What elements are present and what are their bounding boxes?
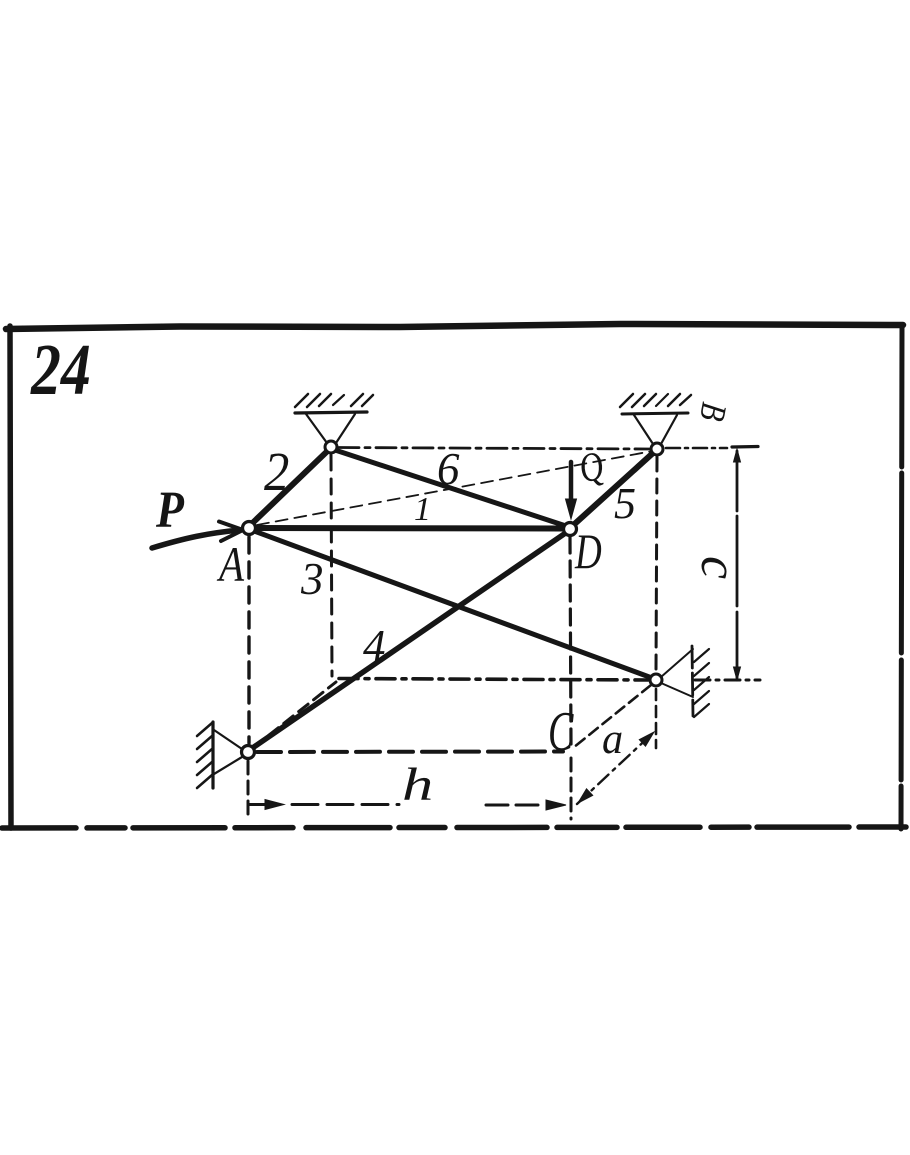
node A [243, 522, 256, 535]
frame top border [6, 324, 903, 329]
dimension c: top tick [732, 445, 758, 449]
svg-text:2: 2 [264, 442, 289, 502]
svg-text:a: a [602, 715, 623, 763]
dimension h: left arrowhead [265, 800, 284, 810]
box edge: vertical below B [656, 457, 657, 671]
node at bottom-right wall support [650, 674, 662, 686]
dimension h: dashes right of label [486, 804, 538, 807]
frame right border [901, 327, 902, 829]
svg-text:c: c [690, 556, 747, 579]
bar 2 (A to top-left support) [252, 451, 328, 524]
dimension c: bottom arrowhead [734, 667, 741, 680]
dimension c: bottom extension [695, 679, 760, 682]
top-right support ceiling line [622, 413, 688, 414]
svg-text:24: 24 [30, 331, 91, 411]
top-right support hatching [620, 394, 633, 407]
bottom-right wall support wall line [692, 646, 693, 716]
svg-text:5: 5 [614, 479, 636, 528]
node B at top-right support [651, 443, 663, 455]
box edge: bottom front [257, 750, 563, 755]
extension line below front-bottom-left node [247, 761, 250, 818]
box edge: depth C to bottom-right node [576, 685, 651, 746]
bar 3 (A to bottom-right support) [254, 531, 652, 678]
extension line below bottom-right node [655, 689, 658, 748]
svg-text:3: 3 [300, 554, 324, 604]
top-right support legs [634, 415, 653, 444]
box edge: top back (dash-dot) [339, 448, 649, 450]
svg-text:4: 4 [363, 621, 386, 671]
box edge: bottom back (dash-dot) [339, 679, 648, 681]
bar 4 (bottom-left support to D) [251, 532, 567, 749]
dimension h: dashes left of label [292, 803, 399, 806]
top-left support legs [306, 414, 327, 443]
bottom-left wall support wall line [211, 722, 214, 788]
dimension h: left segment [249, 803, 268, 806]
thin dashed diagonal A to B [257, 452, 650, 526]
dimension a: dimension line [577, 732, 654, 804]
extension line below C [570, 758, 573, 819]
svg-text:C: C [548, 701, 574, 763]
dimension a: lower arrowhead [578, 789, 593, 803]
box edge: depth bottom-left [254, 682, 336, 747]
dimension a: upper arrowhead [639, 732, 654, 746]
top-left support hatching [295, 394, 308, 407]
bottom-left wall support hatching [197, 723, 212, 736]
force P arrow shaft [152, 530, 240, 548]
node D [564, 523, 577, 536]
node at bottom-left wall support [242, 746, 255, 759]
bottom-right wall support hatching [694, 649, 709, 662]
bar 5 (D to top-right support) [574, 453, 653, 525]
force P arrowhead [219, 522, 243, 542]
force Q arrowhead [566, 499, 577, 519]
force Q arrow shaft [569, 462, 574, 503]
bottom-left wall support legs [214, 730, 242, 749]
frame left border [10, 326, 11, 828]
box edge: vertical below D [570, 537, 571, 744]
svg-text:D: D [574, 524, 602, 580]
dimension h: right arrowhead [546, 800, 566, 810]
top-left support ceiling line [295, 412, 367, 413]
svg-text:h: h [402, 759, 433, 810]
svg-text:A: A [216, 536, 245, 592]
bar 1 (A-D) [256, 525, 563, 532]
dimension c: top extension from B [666, 447, 727, 450]
node at top-left support [325, 441, 337, 453]
svg-text:1: 1 [414, 491, 431, 528]
svg-text:P: P [155, 480, 185, 538]
svg-text:6: 6 [437, 444, 460, 494]
dimension c: vertical dimension line [736, 451, 739, 678]
box edge: vertical below A [247, 537, 250, 743]
frame bottom border [2, 827, 906, 828]
box edge: vertical below top-left support [331, 455, 332, 676]
bar 6 (top-left support to D) [335, 450, 566, 526]
bottom-right wall support legs [661, 649, 693, 677]
dimension c: top arrowhead [734, 449, 741, 462]
